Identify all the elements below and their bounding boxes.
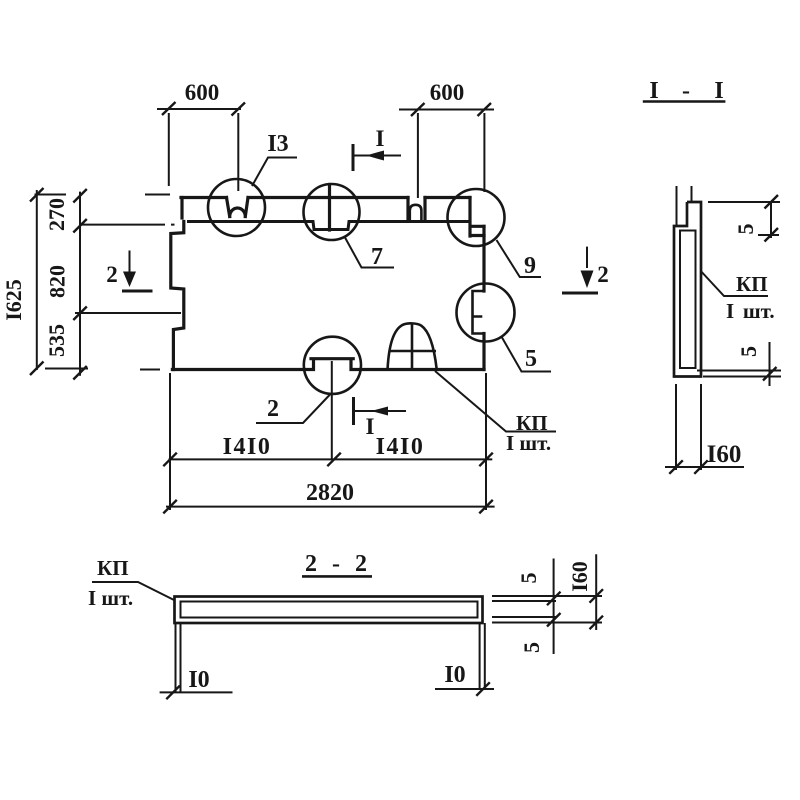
wire top edge segments	[181, 196, 470, 199]
detail circle 5	[457, 284, 515, 342]
section 2-2 legs	[176, 623, 485, 692]
svg-text:I: I	[366, 414, 375, 439]
svg-text:9: 9	[524, 253, 536, 279]
svg-text:2: 2	[106, 262, 118, 287]
svg-text:I625: I625	[1, 279, 26, 321]
svg-text:КП: КП	[736, 272, 768, 296]
svg-text:7: 7	[371, 244, 383, 270]
svg-text:5: 5	[519, 642, 544, 653]
svg-text:I60: I60	[567, 561, 592, 592]
svg-text:270: 270	[44, 198, 69, 231]
svg-text:I: I	[376, 126, 385, 151]
dimension 600 left	[157, 80, 245, 191]
svg-text:I3: I3	[267, 131, 288, 157]
node groove with lug at 600 from right	[408, 198, 425, 222]
section 2-2 outer profile	[175, 597, 483, 624]
svg-text:5: 5	[525, 346, 537, 372]
section marker I top	[353, 126, 401, 171]
svg-text:I: I	[649, 78, 658, 104]
label KP 1sht plan with leader	[435, 371, 556, 455]
svg-text:-: -	[332, 551, 340, 577]
svg-text:2820: 2820	[306, 480, 354, 506]
label I3 with leader	[252, 131, 297, 186]
label 7 with leader	[345, 238, 394, 271]
label 2 with leader	[256, 395, 330, 424]
svg-text:КП: КП	[97, 556, 129, 580]
section I-I title	[643, 78, 726, 104]
dimension 600 right	[399, 80, 494, 198]
section I-I top bars	[677, 186, 692, 226]
wire bottom edge with hat notch detail 2	[172, 359, 484, 370]
svg-text:I шт.: I шт.	[88, 586, 133, 610]
node right end step detail 9	[470, 198, 484, 237]
svg-text:2: 2	[267, 396, 279, 422]
svg-text:2: 2	[597, 262, 609, 287]
svg-text:535: 535	[44, 324, 69, 357]
dimension 10 left of 2-2	[160, 667, 233, 699]
svg-text:820: 820	[45, 265, 70, 298]
svg-text:600: 600	[185, 80, 220, 105]
node joint detail 7	[328, 185, 331, 231]
section marker 2 right	[562, 247, 609, 293]
dimension 1410 1410 bottom	[163, 434, 493, 466]
svg-text:600: 600	[430, 80, 465, 105]
svg-text:I шт.: I шт.	[726, 299, 775, 323]
svg-text:5: 5	[736, 346, 761, 357]
dimension 10 right of 2-2	[435, 662, 494, 696]
node E-notch detail 5	[473, 291, 485, 334]
dimensions 5 160 5 right of 2-2	[492, 554, 603, 654]
svg-text:I4I0: I4I0	[376, 434, 425, 460]
wire band lower line with depression	[189, 222, 471, 230]
extension lines bottom	[170, 361, 486, 510]
dimension 5 bottom of I-I	[697, 342, 781, 386]
detail circle 13	[208, 179, 515, 394]
label KP 1sht I-I with leader	[701, 271, 775, 323]
node notch detail 13	[227, 198, 249, 217]
svg-text:5: 5	[733, 224, 758, 235]
label KP 1sht 2-2 with leader	[88, 556, 174, 610]
dimension 2820 bottom	[163, 480, 494, 513]
section 2-2 title	[302, 551, 372, 577]
wire right edge upper	[482, 226, 485, 291]
label 5 with leader	[502, 338, 551, 373]
section I-I profile	[674, 202, 701, 377]
dimension chain 270 820 535 left inner	[44, 189, 181, 380]
svg-text:I0: I0	[188, 667, 209, 693]
section I-I inner channel KP	[680, 231, 696, 369]
label 9 with leader	[497, 240, 542, 279]
svg-text:I: I	[714, 78, 723, 104]
svg-text:I60: I60	[707, 441, 742, 468]
detail circle 7	[304, 184, 360, 240]
dimension 5 top of I-I	[708, 195, 780, 242]
svg-text:2: 2	[355, 551, 367, 577]
svg-text:-: -	[682, 78, 690, 104]
section marker 2 left	[106, 251, 152, 292]
dimension 1625 left outer	[1, 188, 170, 375]
svg-text:5: 5	[516, 573, 541, 584]
svg-text:I0: I0	[444, 662, 465, 688]
svg-text:2: 2	[305, 551, 317, 577]
wire left edge with jogs	[171, 222, 184, 370]
node band left edge	[180, 198, 183, 219]
section marker I bottom	[354, 397, 407, 439]
detail circle 2	[304, 337, 361, 394]
section 2-2 inner channel KP	[181, 602, 478, 618]
embedded part dome KP in plan	[388, 323, 437, 368]
dimension 160 below I-I	[665, 384, 744, 474]
svg-text:I шт.: I шт.	[506, 431, 551, 455]
svg-text:I4I0: I4I0	[223, 434, 272, 460]
detail circle 9	[448, 189, 505, 246]
wire right edge lower	[482, 334, 485, 370]
plan view panel outline	[171, 185, 484, 370]
